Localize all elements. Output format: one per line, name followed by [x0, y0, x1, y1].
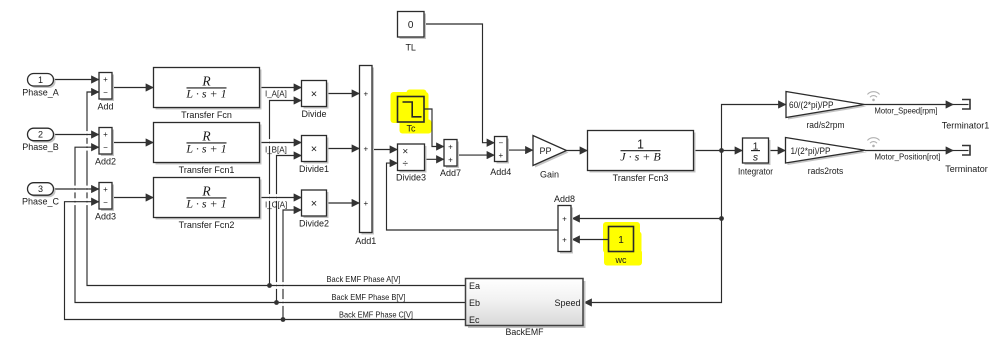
svg-text:Divide: Divide — [301, 109, 326, 119]
svg-text:+: + — [363, 199, 368, 208]
junction dot on Back EMF B wire — [274, 300, 279, 305]
wire Add1 output to Divide3 — [372, 149, 398, 151]
svg-text:L · s + 1: L · s + 1 — [185, 87, 226, 101]
svg-text:BackEMF: BackEMF — [506, 327, 544, 337]
svg-text:rad/s2rpm: rad/s2rpm — [807, 120, 845, 130]
sum block Add — [97, 73, 114, 112]
svg-text:Phase_A: Phase_A — [22, 87, 59, 97]
svg-text:+: + — [562, 215, 567, 224]
wire Phase_B port to Add2 plus input — [54, 134, 100, 136]
svg-text:+: + — [103, 185, 108, 194]
wire Phase_C port to Add3 plus input — [54, 188, 100, 190]
svg-text:Add1: Add1 — [355, 236, 376, 246]
inport 3 Phase_C — [22, 183, 60, 207]
svg-text:Transfer Fcn2: Transfer Fcn2 — [179, 220, 235, 230]
product block Divide3 — [396, 144, 427, 183]
wire Transfer Fcn output I_A to Divide — [260, 87, 302, 89]
terminator block Terminator — [945, 146, 988, 175]
svg-text:Ec: Ec — [469, 315, 480, 325]
wire Back EMF Phase C from BackEMF Ec to Add3 minus input — [65, 202, 466, 320]
wire Tc step to Add7 first input — [424, 109, 444, 147]
wire TL constant to Add4 minus input — [424, 24, 495, 143]
constant block TL — [398, 12, 427, 53]
inport 1 Phase_A — [22, 74, 59, 98]
wire Back EMF Phase A from BackEMF Ea to Add minus input — [87, 92, 466, 286]
svg-text:0: 0 — [408, 20, 414, 31]
subsystem block BackEMF — [466, 279, 586, 338]
wire speed branch up to rad/s2rpm gain — [722, 105, 787, 151]
svg-text:÷: ÷ — [403, 159, 409, 170]
junction dot on Add8 first input branch — [719, 216, 724, 221]
svg-text:Add8: Add8 — [554, 194, 575, 204]
svg-text:−: − — [498, 139, 503, 148]
transfer function block Transfer Fcn2 — [154, 178, 262, 231]
wire Add output to Transfer Fcn — [112, 87, 154, 89]
signal label Back EMF Phase B[V] — [332, 292, 406, 302]
wire Back EMF Phase B from BackEMF Eb to Add2 minus input — [75, 147, 466, 302]
signal label Back EMF Phase C[V] — [339, 310, 413, 320]
wire Divide3 output to Add7 — [425, 158, 445, 160]
junction dot on Transfer Fcn3 output — [719, 148, 724, 153]
svg-text:Back EMF Phase B[V]: Back EMF Phase B[V] — [332, 292, 406, 302]
terminator block Terminator1 — [942, 100, 990, 131]
junction dot on Back EMF C wire — [281, 317, 286, 322]
svg-text:×: × — [311, 144, 317, 156]
svg-text:Divide3: Divide3 — [396, 173, 426, 183]
wire crossing gaps on vertical lines — [73, 131, 284, 306]
product block Divide1 — [299, 136, 329, 175]
signal label Motor_Position[rot] — [875, 152, 941, 162]
wire Back EMF B branch up to Divide1 second input — [277, 156, 302, 303]
wire Add3 output to Transfer Fcn2 — [112, 197, 154, 199]
sum block Add1 tall — [355, 66, 376, 247]
signal label I_C[A] — [265, 200, 287, 209]
constant block wc — [609, 227, 634, 266]
svg-text:1: 1 — [38, 75, 43, 85]
svg-text:2: 2 — [38, 130, 43, 140]
sum block Add8 flipped — [554, 194, 575, 254]
svg-text:Back EMF Phase A[V]: Back EMF Phase A[V] — [327, 274, 401, 284]
integrator block 1/s — [738, 138, 773, 177]
svg-text:Transfer Fcn: Transfer Fcn — [181, 110, 232, 120]
wireless signal icon Motor_Speed — [868, 92, 880, 101]
svg-text:Motor_Position[rot]: Motor_Position[rot] — [875, 152, 941, 162]
wire Transfer Fcn2 output I_C to Divide2 — [260, 197, 302, 199]
svg-text:Integrator: Integrator — [738, 167, 773, 177]
svg-text:−: − — [103, 143, 108, 152]
wire Integrator output to rads2rots gain — [769, 150, 786, 152]
svg-text:I_B[A]: I_B[A] — [265, 145, 287, 154]
svg-text:Add: Add — [97, 102, 113, 112]
wire Phase_A port to Add plus input — [54, 79, 100, 81]
svg-text:+: + — [562, 236, 567, 245]
signal label I_A[A] — [265, 89, 287, 98]
svg-text:s: s — [753, 152, 759, 164]
svg-text:Transfer Fcn3: Transfer Fcn3 — [613, 173, 669, 183]
inport 2 Phase_B — [22, 128, 59, 152]
svg-text:Back EMF Phase C[V]: Back EMF Phase C[V] — [339, 310, 413, 320]
wire Transfer Fcn3 output to Integrator — [694, 150, 743, 152]
gain block rads2rots — [786, 138, 868, 177]
sum block Add4 — [490, 137, 511, 178]
wire Back EMF C branch up to Divide2 second input — [283, 210, 302, 320]
product block Divide2 — [299, 190, 329, 229]
sum block Add7 — [440, 140, 461, 179]
wire speed feedback down to BackEMF Speed input — [584, 151, 722, 303]
wire Transfer Fcn1 output I_B to Divide1 — [260, 142, 302, 144]
wire Divide2 output to Add1 — [327, 202, 360, 204]
svg-text:+: + — [363, 90, 368, 99]
svg-text:Gain: Gain — [540, 170, 559, 180]
signal label Motor_Speed[rpm] — [875, 106, 938, 116]
svg-text:1/(2*pi)/PP: 1/(2*pi)/PP — [791, 146, 831, 156]
transfer function block Transfer Fcn3 1/(J s + B) — [588, 131, 696, 184]
svg-text:Eb: Eb — [469, 298, 480, 308]
svg-text:+: + — [103, 75, 108, 84]
svg-text:Add2: Add2 — [95, 157, 116, 167]
highlight behind wc block — [603, 222, 642, 266]
wire Add2 output to Transfer Fcn1 — [112, 142, 154, 144]
highlight behind Tc block — [391, 90, 432, 134]
svg-text:Divide1: Divide1 — [299, 164, 329, 174]
svg-text:−: − — [103, 88, 108, 97]
wire rad/s2rpm output Motor_Speed to Terminator1 — [865, 104, 969, 106]
svg-text:−: − — [103, 198, 108, 207]
svg-text:I_A[A]: I_A[A] — [265, 89, 287, 98]
svg-text:×: × — [311, 198, 317, 210]
wire Add4 output to Gain — [507, 149, 533, 151]
svg-text:Phase_B: Phase_B — [22, 142, 59, 152]
svg-text:+: + — [498, 151, 503, 160]
svg-text:Ea: Ea — [469, 281, 480, 291]
wire Back EMF A branch up to Divide second input — [270, 101, 302, 286]
wireless signal icon Motor_Position — [868, 138, 880, 147]
transfer function block Transfer Fcn R/(L s + 1) — [154, 68, 262, 121]
svg-text:PP: PP — [539, 146, 551, 156]
sum block Add2 — [95, 128, 116, 167]
wire Divide1 output to Add1 — [327, 148, 360, 150]
svg-text:Add3: Add3 — [95, 212, 116, 222]
svg-text:Speed: Speed — [554, 298, 580, 308]
gain block Gain PP — [533, 136, 569, 180]
svg-text:Add7: Add7 — [440, 168, 461, 178]
svg-text:Transfer Fcn1: Transfer Fcn1 — [179, 165, 235, 175]
wire Gain output to Transfer Fcn3 — [567, 150, 588, 152]
svg-text:Phase_C: Phase_C — [22, 197, 60, 207]
sum block Add3 — [95, 183, 116, 222]
svg-text:×: × — [311, 89, 317, 101]
wire Add7 output to Add4 — [457, 154, 495, 156]
svg-text:L · s + 1: L · s + 1 — [185, 197, 226, 211]
svg-text:TL: TL — [405, 43, 416, 53]
svg-text:+: + — [103, 130, 108, 139]
svg-text:Divide2: Divide2 — [299, 219, 329, 229]
wire Add8 output feedback to Divide3 divisor input — [387, 163, 559, 230]
svg-text:Terminator: Terminator — [945, 164, 988, 174]
signal label Back EMF Phase A[V] — [327, 274, 401, 284]
svg-text:I_C[A]: I_C[A] — [265, 200, 287, 209]
wire rads2rots output Motor_Position to Terminator — [865, 150, 969, 152]
signal label I_B[A] — [265, 145, 287, 154]
gain block rad/s2rpm — [786, 92, 867, 131]
step block Tc — [398, 97, 425, 134]
wire Divide output to Add1 — [327, 93, 360, 95]
svg-text:+: + — [363, 145, 368, 154]
svg-text:wc: wc — [615, 255, 627, 265]
svg-text:rads2rots: rads2rots — [808, 166, 844, 176]
transfer function block Transfer Fcn1 — [154, 123, 262, 176]
svg-text:Add4: Add4 — [490, 167, 511, 177]
svg-text:3: 3 — [38, 184, 43, 194]
svg-text:L · s + 1: L · s + 1 — [185, 142, 226, 156]
wire speed branch to Add8 first input — [572, 218, 722, 220]
svg-text:Motor_Speed[rpm]: Motor_Speed[rpm] — [875, 106, 938, 116]
svg-text:Tc: Tc — [407, 124, 417, 134]
product block Divide — [301, 81, 328, 120]
svg-text:+: + — [448, 143, 453, 152]
svg-text:J · s + B: J · s + B — [620, 149, 661, 163]
svg-text:60/(2*pi)/PP: 60/(2*pi)/PP — [789, 100, 834, 110]
svg-text:Terminator1: Terminator1 — [942, 121, 990, 131]
svg-text:1: 1 — [618, 235, 624, 246]
svg-text:+: + — [448, 155, 453, 164]
junction dot on Back EMF A wire — [267, 283, 272, 288]
svg-text:×: × — [402, 146, 408, 157]
wire wc constant to Add8 second input — [572, 239, 609, 241]
